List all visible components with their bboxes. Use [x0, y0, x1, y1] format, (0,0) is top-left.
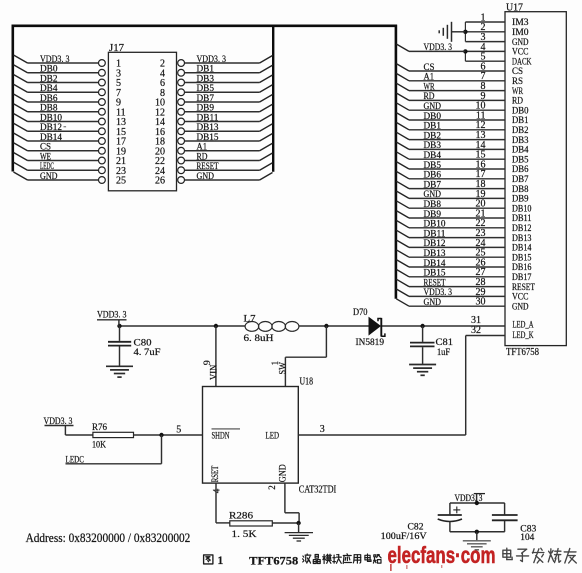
svg-text:DB5: DB5 — [424, 161, 442, 171]
svg-text:DB2: DB2 — [512, 126, 529, 136]
svg-text:DB1: DB1 — [512, 116, 529, 126]
svg-text:LEDC: LEDC — [40, 162, 54, 172]
svg-text:elecfans·com: elecfans·com — [388, 542, 496, 568]
svg-text:2: 2 — [267, 485, 277, 490]
svg-text:WR: WR — [424, 82, 435, 92]
svg-text:LED: LED — [266, 432, 280, 442]
svg-text:J17: J17 — [109, 43, 124, 54]
svg-text:U18: U18 — [300, 377, 314, 388]
svg-text:VCC: VCC — [512, 293, 529, 303]
svg-text:U17: U17 — [506, 2, 523, 13]
svg-text:DB6: DB6 — [424, 171, 442, 181]
svg-text:DB3: DB3 — [197, 74, 215, 84]
svg-text:10K: 10K — [92, 440, 106, 450]
svg-text:GND: GND — [40, 172, 58, 182]
svg-text:WE: WE — [40, 152, 51, 162]
svg-text:DB9: DB9 — [197, 104, 215, 114]
svg-text:DB10: DB10 — [40, 113, 62, 123]
svg-text:DB17: DB17 — [512, 273, 532, 283]
svg-text:DB5: DB5 — [197, 84, 215, 94]
svg-text:1: 1 — [271, 361, 281, 366]
svg-text:C81: C81 — [436, 338, 454, 348]
svg-text:DACK: DACK — [512, 57, 532, 67]
svg-text:VIN: VIN — [209, 365, 219, 380]
svg-text:VDD3. 3: VDD3. 3 — [197, 55, 227, 65]
svg-text:DB4: DB4 — [512, 146, 529, 156]
svg-text:104: 104 — [520, 533, 534, 543]
svg-text:DB7: DB7 — [424, 180, 442, 190]
svg-text:R286: R286 — [229, 512, 253, 522]
svg-text:DB10: DB10 — [424, 220, 446, 230]
svg-text:LED_K: LED_K — [513, 331, 534, 341]
svg-text:VCC: VCC — [512, 48, 529, 58]
svg-text:DB8: DB8 — [424, 200, 442, 210]
svg-text:25: 25 — [116, 176, 126, 187]
svg-text:DB4: DB4 — [424, 151, 442, 161]
svg-text:DB4: DB4 — [40, 84, 58, 94]
svg-text:R76: R76 — [92, 423, 107, 433]
svg-text:VDD3. 3: VDD3. 3 — [40, 55, 70, 65]
svg-text:30: 30 — [476, 297, 486, 308]
svg-text:DB3: DB3 — [424, 141, 442, 151]
svg-text:DB0: DB0 — [40, 65, 58, 75]
svg-text:DB14: DB14 — [512, 244, 532, 254]
svg-text:100uF/16V: 100uF/16V — [381, 532, 427, 542]
svg-text:RD: RD — [424, 92, 435, 102]
svg-text:RESET: RESET — [512, 283, 535, 293]
svg-text:DB13: DB13 — [512, 234, 532, 244]
svg-text:9: 9 — [203, 360, 213, 365]
svg-text:A1: A1 — [424, 73, 435, 83]
svg-text:GND: GND — [424, 102, 442, 112]
svg-text:DB12: DB12 — [424, 239, 446, 249]
svg-text:IM0: IM0 — [512, 28, 529, 38]
svg-text:GND: GND — [197, 172, 215, 182]
svg-text:DB0: DB0 — [424, 112, 442, 122]
svg-text:DB1: DB1 — [424, 122, 442, 132]
svg-text:DB5: DB5 — [512, 155, 529, 165]
svg-text:DB11: DB11 — [197, 113, 219, 123]
svg-text:DB7: DB7 — [512, 175, 529, 185]
svg-text:IM3: IM3 — [512, 18, 529, 28]
svg-text:SHDN: SHDN — [212, 432, 230, 442]
svg-text:DB8: DB8 — [40, 104, 58, 114]
svg-text:CS: CS — [512, 67, 523, 77]
svg-text:TFT6758: TFT6758 — [506, 347, 539, 358]
svg-text:RESET: RESET — [197, 162, 219, 172]
svg-text:DB2: DB2 — [424, 131, 442, 141]
svg-text:IN5819: IN5819 — [356, 338, 385, 348]
svg-text:DB13: DB13 — [197, 123, 219, 133]
svg-text:26: 26 — [155, 176, 165, 187]
svg-text:DB15: DB15 — [197, 133, 219, 143]
svg-text:CS: CS — [40, 143, 51, 153]
svg-text:LED_A: LED_A — [513, 321, 534, 331]
svg-text:DB16: DB16 — [512, 263, 532, 273]
svg-text:GND: GND — [512, 38, 529, 48]
svg-text:DB2: DB2 — [40, 74, 58, 84]
svg-text:GND: GND — [512, 302, 529, 312]
svg-text:L7: L7 — [244, 314, 256, 324]
svg-text:DB13: DB13 — [424, 249, 446, 259]
svg-text:DB9: DB9 — [512, 195, 529, 205]
svg-text:DB11: DB11 — [512, 214, 532, 224]
svg-text:RESET: RESET — [424, 278, 446, 288]
svg-text:DB15: DB15 — [512, 253, 532, 263]
svg-text:DB14: DB14 — [40, 133, 62, 143]
svg-text:4. 7uF: 4. 7uF — [134, 348, 161, 358]
svg-text:A1: A1 — [197, 143, 208, 153]
svg-text:RD: RD — [512, 97, 523, 107]
svg-text:GND: GND — [424, 298, 442, 308]
svg-text:DB6: DB6 — [40, 94, 58, 104]
svg-text:DB3: DB3 — [512, 136, 529, 146]
svg-text:6. 8uH: 6. 8uH — [244, 334, 274, 344]
svg-text:DB6: DB6 — [512, 165, 529, 175]
svg-text:Address: 0x83200000 / 0x832000: Address: 0x83200000 / 0x83200002 — [26, 531, 191, 545]
svg-text:RSET: RSET — [210, 465, 220, 482]
svg-text:DB14: DB14 — [424, 259, 446, 269]
svg-text:DB12: DB12 — [40, 123, 62, 133]
svg-text:VDD3. 3: VDD3. 3 — [424, 43, 453, 53]
svg-text:1: 1 — [218, 555, 224, 567]
svg-text:WR: WR — [512, 87, 523, 97]
svg-text:DB9: DB9 — [424, 210, 442, 220]
svg-text:GND: GND — [424, 190, 442, 200]
svg-text:DB0: DB0 — [512, 106, 529, 116]
svg-text:DB8: DB8 — [512, 185, 529, 195]
svg-text:5: 5 — [176, 424, 181, 435]
svg-text:DB11: DB11 — [424, 229, 446, 239]
svg-text:DB1: DB1 — [197, 65, 215, 75]
svg-text:CAT32TDI: CAT32TDI — [299, 485, 337, 496]
svg-text:VDD3. 3: VDD3. 3 — [424, 288, 453, 298]
svg-text:DB15: DB15 — [424, 269, 446, 279]
svg-text:RD: RD — [197, 152, 208, 162]
svg-text:RS: RS — [512, 77, 523, 87]
svg-text:TFT6758: TFT6758 — [249, 555, 298, 567]
svg-text:DB7: DB7 — [197, 94, 215, 104]
svg-text:CS: CS — [424, 63, 435, 73]
svg-text:GND: GND — [277, 464, 287, 482]
svg-text:1uF: 1uF — [437, 348, 450, 358]
svg-text:3: 3 — [320, 424, 325, 435]
svg-text:D70: D70 — [353, 308, 368, 318]
svg-text:DB12: DB12 — [512, 224, 532, 234]
svg-text:DB10: DB10 — [512, 204, 532, 214]
svg-text:1. 5K: 1. 5K — [232, 530, 257, 540]
